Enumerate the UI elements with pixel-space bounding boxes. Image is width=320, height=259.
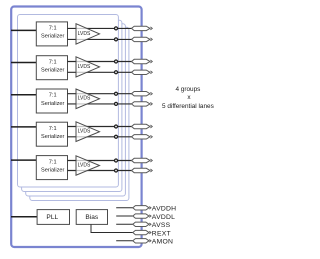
PLL block [37,210,69,225]
svg-text:Serializer: Serializer [41,34,64,40]
AVSS wire [116,223,135,225]
svg-text:5 differential lanes: 5 differential lanes [162,103,214,110]
AMON wire [116,240,135,242]
group card 4 [30,27,129,200]
lane 4 pad + [115,125,118,128]
lane 1 input wire [11,29,36,31]
svg-text:Serializer: Serializer [41,134,64,140]
lane 1 differential wire - [68,38,135,40]
pin AVDDH [133,206,149,210]
group card 3 [26,24,126,196]
svg-text:Bias: Bias [85,214,99,221]
lane 3 differential wire + [68,93,135,95]
lane 5 pad - [115,169,118,172]
pin AVSS [133,222,149,226]
LVDS driver 5 [76,156,100,175]
lane 3 output pin - [132,102,151,106]
lane 5 pad + [115,159,118,162]
svg-text:4 groups: 4 groups [175,86,200,93]
lane 4 output pin - [132,135,151,139]
svg-text:AVSS: AVSS [152,222,171,229]
lane 1 output pin + [132,26,151,30]
AVDDL wire [116,215,135,217]
pin REXT [133,230,149,234]
svg-text:Serializer: Serializer [41,68,64,74]
svg-text:7:1: 7:1 [49,126,57,132]
lane 1 differential wire + [68,27,135,29]
lane 2 differential wire + [68,61,135,63]
lane 1 pad - [115,38,118,41]
svg-text:LVDS: LVDS [78,31,91,37]
LVDS driver 1 [76,24,100,44]
pin AMON [133,239,149,243]
PLL input wire [11,216,37,218]
lane 4 differential wire - [68,136,135,138]
lane 1 pad + [115,27,118,30]
Bias block [76,210,107,225]
group card 2 [22,20,122,191]
serializer U4 7:1 [36,122,67,146]
svg-text:LVDS: LVDS [78,129,91,135]
annotation: 4 groups x 5 differential lanes [162,86,214,110]
svg-text:AVDDH: AVDDH [152,206,177,213]
pin AVDDL [133,214,149,218]
lane 3 input wire [11,94,36,96]
LVDS driver 3 [76,89,100,109]
serializer U1 7:1 [36,22,67,46]
lane 2 output pin - [132,70,151,74]
svg-text:AVDDL: AVDDL [152,214,175,221]
lane 4 output pin + [132,124,151,128]
svg-text:7:1: 7:1 [49,93,57,99]
REXT wire from Bias [91,224,135,232]
lane 3 pad + [115,92,118,95]
lane 2 output pin + [132,59,151,63]
serializer U2 7:1 [36,56,67,80]
lane 5 output pin + [132,158,151,162]
lane 4 input wire [11,126,36,128]
svg-text:LVDS: LVDS [78,96,91,102]
serializer U3 7:1 [36,89,67,113]
svg-text:PLL: PLL [46,214,58,221]
lane 4 pad - [115,135,118,138]
lane 2 pad - [115,71,118,74]
svg-text:Serializer: Serializer [41,101,64,107]
lane 2 differential wire - [68,71,135,73]
LVDS driver 2 [76,57,100,77]
svg-text:AMON: AMON [152,239,173,246]
lane 5 differential wire + [68,160,135,162]
svg-text:Serializer: Serializer [41,167,64,173]
group card 1 (front) [18,15,119,188]
serializer U5 7:1 [36,156,67,180]
lane 5 input wire [11,159,36,161]
svg-text:7:1: 7:1 [49,159,57,165]
svg-text:7:1: 7:1 [49,59,57,65]
AVDDH wire [116,207,135,209]
lane 5 differential wire - [68,170,135,172]
lane 3 output pin + [132,92,151,96]
lane 3 differential wire - [68,103,135,105]
svg-text:7:1: 7:1 [49,26,57,32]
svg-text:LVDS: LVDS [78,64,91,70]
svg-text:LVDS: LVDS [78,162,91,168]
lane 3 pad - [115,102,118,105]
lane 2 input wire [11,62,36,64]
lane 5 output pin - [132,168,151,172]
lane 1 output pin - [132,37,151,41]
LVDS driver 4 [76,122,100,142]
lane 4 differential wire + [68,126,135,128]
lane 2 pad + [115,60,118,63]
chip outer block [11,7,141,248]
svg-text:REXT: REXT [152,230,171,237]
